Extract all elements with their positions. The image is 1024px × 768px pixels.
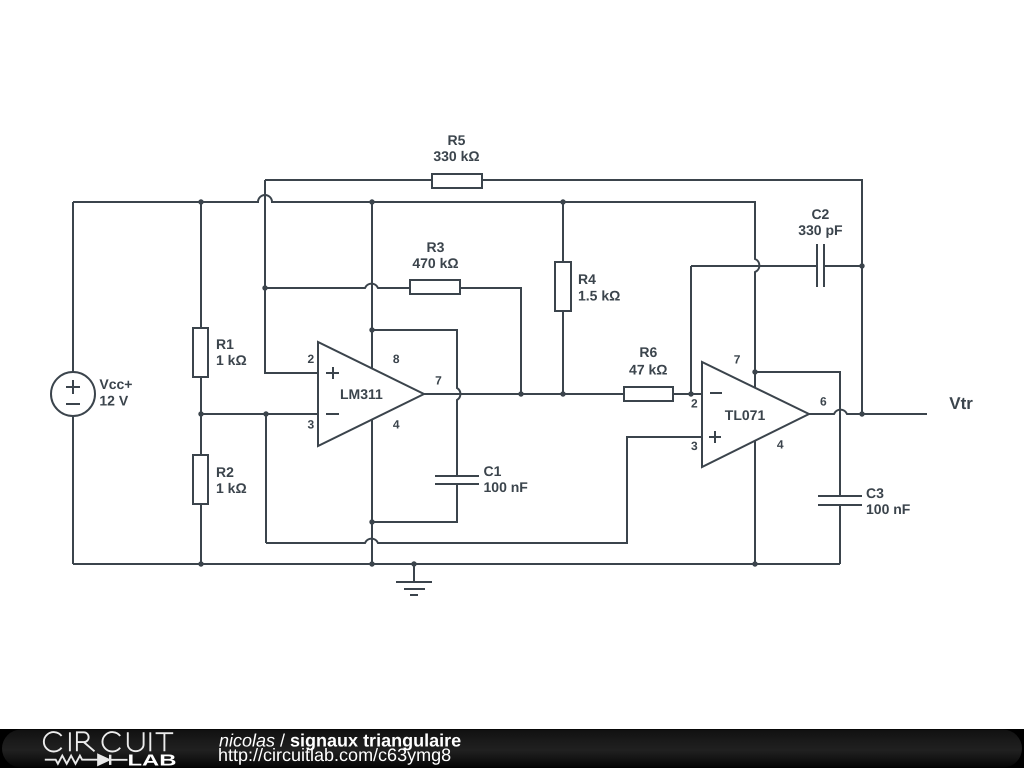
node R1 top on Vcc rail <box>198 199 203 204</box>
wire R1 bottom <box>200 376 202 414</box>
svg-text:C3: C3 <box>866 485 884 501</box>
svg-text:470 kΩ: 470 kΩ <box>412 255 458 271</box>
wire x=372 rail to LM311 pin 8 <box>371 202 373 368</box>
node Vtr output junction <box>859 411 864 416</box>
svg-text:100 nF: 100 nF <box>484 479 529 495</box>
logo resistor-diode <box>45 755 128 765</box>
svg-text:7: 7 <box>734 353 741 367</box>
node ground symbol junction <box>411 561 416 566</box>
node LM311 pin8 feed on Vcc rail <box>369 199 374 204</box>
wire TL071 output to Vtr with hop at x=840 <box>809 410 927 414</box>
node TL071 pin4 on ground rail <box>752 561 757 566</box>
wire LM311 pin 3 <box>201 413 318 415</box>
node C1 bottom junction <box>369 519 374 524</box>
op-amp U1 LM311 <box>318 342 424 446</box>
capacitor C1 <box>435 476 479 484</box>
op-amp U1 plus minus <box>326 367 339 414</box>
svg-text:Vcc+: Vcc+ <box>99 376 132 392</box>
footer bar <box>0 729 1024 768</box>
svg-text:12 V: 12 V <box>99 393 128 409</box>
wire pin8 branch to C1 with hop over output <box>372 330 460 476</box>
svg-text:LM311: LM311 <box>340 386 383 402</box>
svg-text:1 kΩ: 1 kΩ <box>216 480 247 496</box>
svg-text:3: 3 <box>691 439 698 453</box>
wire TL071 pin 4 <box>754 441 756 564</box>
wire C2 left and down to pin 2 node <box>691 266 817 394</box>
wire R5 right down to output node <box>482 180 862 414</box>
svg-text:1.5 kΩ: 1.5 kΩ <box>578 288 620 304</box>
voltage source V1 <box>51 372 95 416</box>
resistor R4 <box>555 262 571 311</box>
resistor R6 <box>624 387 673 401</box>
svg-text:3: 3 <box>308 418 315 432</box>
svg-text:4: 4 <box>393 418 400 432</box>
wire Vcc bottom <box>72 416 74 564</box>
node C2 right / R5 feedback <box>859 263 864 268</box>
wire R1 top <box>200 202 202 328</box>
svg-text:R1: R1 <box>216 336 234 352</box>
wire R5 left <box>265 179 432 181</box>
resistor R5 <box>432 174 482 188</box>
wire R3 right down to LM311 output <box>461 288 521 394</box>
op-amp U2 TL071 <box>702 362 809 467</box>
wire R6 right to TL071 pin 2 <box>673 393 702 395</box>
svg-text:7: 7 <box>435 374 442 388</box>
wire R2 bottom <box>200 504 202 564</box>
svg-text:2: 2 <box>308 352 315 366</box>
resistor R3 <box>410 280 460 294</box>
node C2 left on TL071 pin2 <box>688 391 693 396</box>
svg-text:47 kΩ: 47 kΩ <box>629 362 667 378</box>
node R1-R2 divider <box>198 411 203 416</box>
svg-text:R3: R3 <box>427 239 445 255</box>
op-amp U2 plus minus <box>709 393 722 443</box>
resistor R2 <box>193 455 208 504</box>
node LM311 pin4 on ground rail <box>369 561 374 566</box>
wire pin3 net down and to TL071 pin 3 with hop <box>266 414 702 543</box>
wire node A vertical x=265 to LM311 pin 2 <box>265 180 318 373</box>
svg-text:100 nF: 100 nF <box>866 501 911 517</box>
node R4 top on Vcc rail <box>560 199 565 204</box>
svg-text:330 pF: 330 pF <box>798 222 843 238</box>
capacitor C2 <box>817 244 824 287</box>
svg-text:R4: R4 <box>578 271 596 287</box>
svg-text:C2: C2 <box>811 206 829 222</box>
node R2 bottom on ground rail <box>198 561 203 566</box>
node TL071 pin7 / C3 branch <box>752 369 757 374</box>
wire C3 bottom <box>839 505 841 564</box>
svg-text:C1: C1 <box>484 463 502 479</box>
node R3 right on LM311 output <box>518 391 523 396</box>
svg-text:http://circuitlab.com/c63ymg8: http://circuitlab.com/c63ymg8 <box>218 745 451 765</box>
svg-text:8: 8 <box>393 352 400 366</box>
svg-text:R6: R6 <box>639 344 657 360</box>
svg-text:6: 6 <box>820 395 827 409</box>
wire R4 bottom <box>562 312 564 394</box>
resistor R1 <box>193 328 208 377</box>
svg-text:2: 2 <box>691 397 698 411</box>
wire R4 top <box>562 202 564 262</box>
wire LM311 output to R6 <box>424 393 624 395</box>
svg-text:R2: R2 <box>216 464 234 480</box>
svg-text:LAB: LAB <box>128 752 177 768</box>
wire C2 right <box>824 265 862 267</box>
wire C1 bottom to pin4 line <box>372 484 457 522</box>
svg-text:330 kΩ: 330 kΩ <box>433 148 479 164</box>
wire Vcc+ rail with hop at x=265 and corner down to TL071 pin 7 <box>73 195 759 388</box>
svg-text:TL071: TL071 <box>725 407 766 423</box>
ground <box>413 564 415 581</box>
wire R2 top <box>200 414 202 455</box>
capacitor C3 <box>818 496 862 505</box>
svg-text:R5: R5 <box>448 132 466 148</box>
wire ground rail <box>73 563 840 565</box>
wire LM311 pin 4 to ground rail <box>371 420 373 564</box>
node R4 bottom on LM311 output <box>560 391 565 396</box>
svg-text:Vtr: Vtr <box>949 394 973 413</box>
node R3 left junction <box>262 285 267 290</box>
wire R3 left with hop at x=372 <box>265 284 410 288</box>
wire TL071 pin7 branch to C3 <box>755 372 840 496</box>
node pin8 / C1 branch <box>369 327 374 332</box>
logo CIRCUIT <box>44 732 173 751</box>
svg-text:1 kΩ: 1 kΩ <box>216 352 247 368</box>
wire Vcc top to rail <box>72 202 74 372</box>
svg-text:4: 4 <box>777 438 784 452</box>
node divider to TL071 pin3 <box>263 411 268 416</box>
